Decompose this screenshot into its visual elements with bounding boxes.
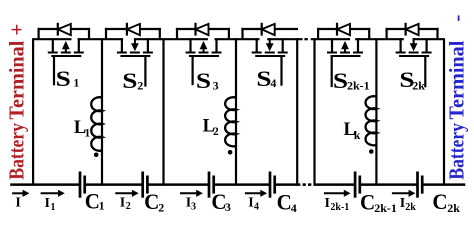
svg-text:I: I [45, 196, 50, 211]
svg-text:S: S [56, 66, 71, 91]
svg-text:k: k [354, 130, 361, 142]
svg-text:3: 3 [213, 79, 219, 93]
svg-text:3: 3 [225, 200, 231, 214]
svg-text:2k: 2k [405, 202, 416, 213]
svg-text:2: 2 [137, 78, 143, 92]
svg-text:2: 2 [158, 201, 164, 215]
svg-text:S: S [196, 68, 211, 93]
svg-text:2k-1: 2k-1 [330, 202, 349, 213]
svg-text:2: 2 [126, 201, 131, 212]
svg-text:I: I [15, 196, 20, 211]
svg-text:S: S [256, 66, 271, 91]
svg-text:I: I [325, 196, 330, 211]
svg-text:1: 1 [51, 202, 56, 213]
svg-text:I: I [120, 195, 125, 210]
svg-text:1: 1 [73, 75, 79, 89]
svg-text:C: C [432, 189, 447, 214]
svg-text:2k-1: 2k-1 [347, 79, 370, 93]
svg-text:2: 2 [213, 126, 219, 138]
svg-text:3: 3 [191, 201, 196, 212]
svg-text:S: S [333, 68, 348, 93]
svg-text:C: C [277, 189, 292, 214]
svg-text:1: 1 [99, 198, 105, 212]
svg-text:BatteryTerminal+: BatteryTerminal+ [4, 24, 28, 180]
svg-text:BatteryTerminal-: BatteryTerminal- [444, 15, 468, 180]
svg-text:4: 4 [270, 76, 276, 90]
svg-text:4: 4 [291, 201, 297, 215]
svg-text:2k-1: 2k-1 [374, 201, 397, 215]
svg-text:4: 4 [254, 201, 259, 212]
svg-text:C: C [360, 190, 375, 215]
svg-text:C: C [144, 189, 159, 214]
svg-text:2k: 2k [447, 201, 460, 215]
svg-text:1: 1 [85, 127, 91, 139]
svg-text:I: I [248, 196, 253, 211]
svg-text:2k: 2k [412, 78, 425, 92]
svg-text:S: S [122, 68, 137, 93]
